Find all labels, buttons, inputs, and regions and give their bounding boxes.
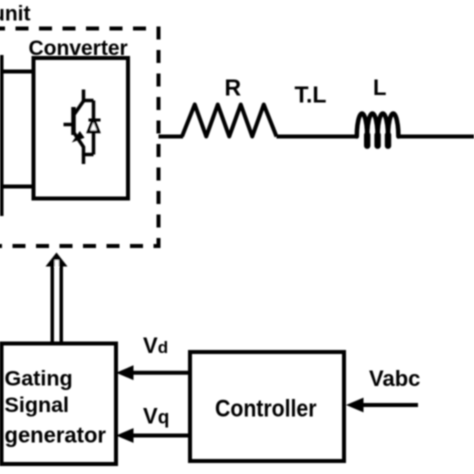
IGBT Q1: top collector stub bbox=[82, 90, 86, 102]
wire: resistor to inductor (transmission line) bbox=[277, 135, 358, 139]
wire: Vq arrow line bbox=[131, 434, 190, 438]
PV unit box right edge (cut off at left) bbox=[0, 55, 4, 216]
IGBT Q1: collector diagonal bbox=[75, 101, 84, 114]
svg-text:T.L: T.L bbox=[295, 82, 327, 108]
controller box bbox=[190, 352, 344, 461]
IGBT Q1: bottom emitter stub bbox=[82, 155, 86, 165]
inductor L coil lower loops bbox=[364, 135, 370, 146]
IGBT Q1: bottom horizontal from diode branch bbox=[84, 153, 94, 157]
Vd arrowhead bbox=[116, 365, 134, 380]
wire: Vd arrow line bbox=[131, 371, 190, 375]
IGBT Q1: body bar bbox=[71, 107, 76, 135]
wire: converter unit to resistor bbox=[159, 135, 184, 139]
converter box bbox=[34, 58, 129, 199]
wire: Vabc arrow line bbox=[358, 403, 418, 407]
gating signal arrow: arrowhead bbox=[46, 253, 68, 267]
svg-text:Controller: Controller bbox=[215, 396, 317, 423]
wire: PV unit to converter (upper) bbox=[0, 70, 35, 74]
resistor R zigzag bbox=[182, 105, 277, 137]
IGBT Q1: gate lead bbox=[64, 123, 72, 127]
dashed boundary box of converter unit bbox=[0, 29, 159, 247]
Vq arrowhead bbox=[116, 428, 134, 443]
svg-text:generator: generator bbox=[5, 422, 107, 447]
svg-text:unit: unit bbox=[0, 3, 30, 26]
inductor L coil arches bbox=[357, 113, 399, 136]
svg-text:Signal: Signal bbox=[5, 393, 70, 417]
wire: inductor to right edge bbox=[398, 135, 474, 139]
svg-text:Vq: Vq bbox=[143, 403, 169, 428]
diode D1: triangle (anode, pointing up) bbox=[88, 119, 99, 132]
IGBT Q1: top horizontal to diode branch bbox=[84, 99, 94, 103]
svg-text:Gating: Gating bbox=[5, 367, 73, 391]
gating signal generator box bbox=[2, 344, 117, 465]
IGBT Q1: emitter arrow bbox=[72, 131, 85, 143]
IGBT Q1: emitter diagonal bbox=[75, 134, 84, 156]
Vabc arrowhead bbox=[346, 398, 364, 413]
diode D1: cathode bar bbox=[89, 119, 101, 122]
svg-text:Vabc: Vabc bbox=[369, 366, 420, 391]
diode D1: right vertical branch bbox=[92, 101, 96, 155]
wire: PV unit to converter (lower) bbox=[0, 185, 35, 189]
svg-text:R: R bbox=[225, 75, 242, 101]
svg-text:L: L bbox=[373, 75, 386, 100]
gating signal arrow: double vertical lines bbox=[51, 264, 55, 345]
